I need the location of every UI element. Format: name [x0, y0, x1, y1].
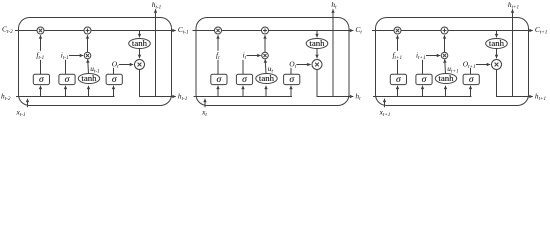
svg-text:ht+1: ht+1	[535, 91, 547, 102]
svg-text:tanh: tanh	[132, 38, 148, 48]
svg-text:ht+1: ht+1	[508, 0, 520, 11]
svg-text:xt-1: xt-1	[15, 107, 25, 118]
svg-text:tanh: tanh	[438, 73, 454, 83]
svg-text:xt: xt	[201, 107, 207, 118]
svg-text:ht-2: ht-2	[1, 91, 11, 102]
svg-text:ht-1: ht-1	[178, 91, 188, 102]
svg-text:tanh: tanh	[309, 38, 325, 48]
svg-text:Ct-2: Ct-2	[2, 24, 13, 35]
svg-text:tanh: tanh	[259, 73, 275, 83]
svg-text:ht: ht	[355, 91, 361, 102]
svg-text:ht: ht	[331, 0, 337, 11]
svg-text:Ct: Ct	[355, 25, 362, 36]
svg-text:tanh: tanh	[489, 38, 505, 48]
svg-text:xt+1: xt+1	[379, 107, 391, 118]
svg-text:Ct+1: Ct+1	[535, 25, 548, 36]
svg-text:tanh: tanh	[81, 73, 97, 83]
svg-text:Ct-1: Ct-1	[178, 25, 189, 36]
svg-text:ht-1: ht-1	[152, 0, 162, 11]
